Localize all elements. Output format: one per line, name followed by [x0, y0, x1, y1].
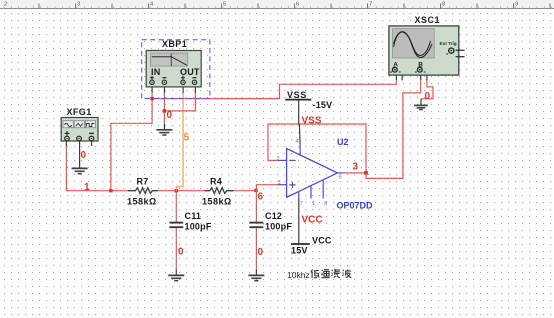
label Ext Trig — [440, 41, 457, 46]
CJK char 通 — [321, 270, 330, 278]
svg-text:4: 4 — [296, 139, 299, 145]
svg-text:C11: C11 — [185, 211, 202, 221]
ground under XFG1 — [72, 168, 88, 173]
op-amp bottom pin 7 — [298, 192, 300, 198]
ground under C11 — [168, 270, 184, 281]
svg-text:R4: R4 — [210, 177, 222, 187]
function generator XFG1 — [61, 118, 98, 142]
svg-text:10khz: 10khz — [287, 270, 310, 280]
output wire from pin 6 — [343, 172, 367, 174]
svg-text:U2: U2 — [337, 137, 349, 147]
CJK char 滤 — [332, 269, 341, 277]
svg-text:OP07DD: OP07DD — [337, 201, 374, 211]
svg-text:6: 6 — [296, 2, 299, 8]
svg-text:6: 6 — [339, 175, 342, 181]
svg-text:0: 0 — [425, 91, 431, 102]
svg-text:9: 9 — [515, 2, 518, 8]
svg-text:15V: 15V — [291, 246, 308, 256]
svg-text:A: A — [393, 62, 398, 69]
svg-text:6: 6 — [258, 192, 264, 203]
op-amp input pin 2 (inverting) — [277, 159, 286, 161]
svg-text:XSC1: XSC1 — [415, 15, 441, 25]
svg-text:2: 2 — [277, 156, 280, 162]
svg-text:8: 8 — [324, 201, 327, 207]
wire: orange net 5 from XBP1 OUT+ down to main node — [176, 87, 183, 191]
XFG1 common wire to ground — [79, 141, 81, 168]
svg-text:3: 3 — [77, 2, 80, 8]
feedback wire output to inverting input — [267, 123, 366, 172]
svg-text:B: B — [418, 62, 423, 69]
svg-text:3: 3 — [278, 180, 281, 186]
svg-text:5: 5 — [184, 132, 190, 144]
capacitor C11 — [169, 191, 183, 270]
svg-text:0: 0 — [178, 247, 184, 258]
wire between R7 and R4 — [158, 190, 205, 192]
power VSS rail — [285, 100, 311, 144]
oscilloscope XSC1 — [389, 26, 459, 75]
svg-text:XBP1: XBP1 — [162, 39, 187, 49]
svg-text:VCC: VCC — [302, 215, 323, 226]
junction at IN+ wire / scope wire — [150, 97, 153, 100]
power VCC rail — [291, 198, 310, 244]
wire XBP1 OUT- joins ground wire — [164, 87, 196, 111]
XSC1 ext trig prongs — [456, 50, 465, 56]
svg-text:-15V: -15V — [313, 100, 333, 110]
svg-text:100pF: 100pF — [185, 222, 212, 232]
op-amp U2 triangle — [287, 149, 338, 198]
capacitor C12 — [250, 191, 264, 270]
svg-text:VCC: VCC — [312, 236, 332, 246]
svg-text:2: 2 — [4, 2, 7, 8]
svg-text:7: 7 — [300, 201, 303, 207]
op-amp bottom pin 1 — [310, 186, 312, 198]
CJK char 波 — [343, 269, 352, 278]
svg-text:VSS: VSS — [287, 90, 307, 100]
op-amp top pin 4 — [299, 143, 301, 156]
svg-text:158kΩ: 158kΩ — [202, 197, 232, 207]
svg-text:OUT: OUT — [180, 67, 200, 77]
wire node to op-amp + input — [256, 185, 277, 191]
svg-text:R7: R7 — [137, 177, 149, 187]
svg-text:158kΩ: 158kΩ — [127, 197, 157, 207]
svg-text:IN: IN — [151, 67, 160, 77]
svg-text:0: 0 — [81, 150, 87, 161]
svg-text:Ext Trig: Ext Trig — [440, 41, 457, 46]
op-amp output pin 6 — [338, 172, 344, 174]
XFG1 minus terminal stub — [91, 141, 93, 146]
ruler — [0, 0, 554, 9]
wire: XFG1 + output to main node — [66, 141, 128, 191]
svg-text:0: 0 — [258, 247, 264, 258]
wire XBP1 IN- to ground — [163, 87, 165, 130]
ground under XSC1 — [414, 105, 428, 109]
ground under XBP1 — [156, 130, 172, 135]
CJK char 低 — [311, 270, 319, 279]
node junction at (110.9,190.7) — [109, 189, 112, 192]
svg-text:1: 1 — [312, 201, 315, 207]
bode plotter XBP1 — [146, 51, 201, 87]
svg-text:5: 5 — [223, 2, 226, 8]
svg-text:VSS: VSS — [302, 116, 322, 127]
wire: long run to oscilloscope channel A — [152, 75, 396, 99]
resistor R7 — [128, 188, 158, 194]
svg-text:7: 7 — [369, 2, 372, 8]
wire: branch up to XBP1 IN+ — [110, 87, 152, 191]
svg-text:100pF: 100pF — [265, 222, 292, 232]
op-amp input pin 3 (non-inverting) — [277, 184, 286, 186]
resistor R4 — [205, 188, 234, 194]
svg-text:C12: C12 — [265, 211, 282, 221]
wire R4 to op-amp node — [234, 190, 257, 192]
op-amp bottom pin 8 — [322, 181, 324, 199]
svg-text:8: 8 — [442, 2, 445, 8]
svg-text:0: 0 — [167, 110, 173, 121]
svg-text:3: 3 — [353, 162, 359, 173]
node junction at (176.3,190.7) — [175, 189, 178, 192]
ground under C12 — [248, 270, 264, 281]
node junction 6 at (255.9,190.4) — [254, 189, 257, 192]
wire output to oscilloscope channel B — [365, 75, 420, 179]
XSC1 A- prong — [401, 75, 403, 80]
junction on ground wire (164.3,111) — [163, 109, 166, 112]
selection rectangle around XBP1 — [142, 40, 210, 99]
svg-text:1: 1 — [84, 182, 90, 193]
junction at output node (366,172.9) — [364, 171, 368, 175]
svg-text:XFG1: XFG1 — [67, 107, 92, 117]
XSC1 B- prong to ground — [421, 75, 434, 105]
